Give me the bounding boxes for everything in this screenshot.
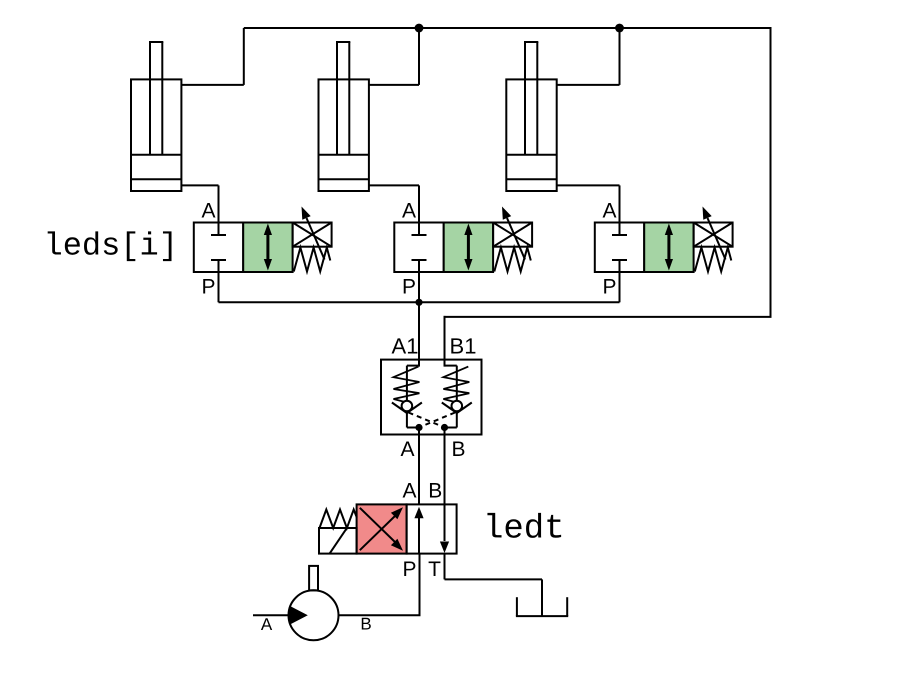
svg-text:A: A [402,480,416,503]
wire cylinder 2 bottom port [369,184,419,186]
svg-text:leds[i]: leds[i] [44,228,178,265]
directional valve P to A arrow [418,516,420,554]
pump shaft stub [309,566,318,591]
valve V1 flow arrow (double headed) [266,232,269,262]
directional valve return spring [320,510,357,529]
valve V1 blocked port P symbol [211,259,226,261]
check valve left (A side) top bracket [407,365,419,367]
directional valve straight position box [407,504,457,553]
svg-text:P: P [402,558,416,581]
check valve right (B side) top bracket [445,365,457,367]
svg-text:T: T [428,558,441,581]
svg-text:A: A [400,438,414,461]
wire cylinder 3 top port [557,84,620,86]
check valve right (B side) seat [442,403,457,414]
check block outline [381,360,482,435]
check valve left (A side) spring [394,367,420,403]
valve V3 pilot box with X [694,223,733,247]
valve V3 proportional arrow [708,218,726,260]
directional valve solenoid slash [330,528,347,553]
cylinder 2 piston rod [336,42,338,155]
cylinder 3 piston rod [524,42,526,155]
wire B1 horizontal [444,316,772,318]
wire valve3 P drop [619,272,621,302]
node check valve right (B side) port junction [441,424,448,431]
valve V2 flow arrow (double headed) [467,232,470,262]
svg-text:P: P [201,276,215,299]
svg-text:A: A [261,615,273,634]
check valve left (A side) seat [392,403,407,414]
valve V3 return spring [695,248,732,272]
wire cylinder 2 top port [369,84,419,86]
cylinder 1 body [131,79,181,191]
valve V3 blocked port A symbol [619,223,621,236]
svg-text:B: B [451,438,465,461]
wire B1 riser [444,316,446,361]
valve V1 blocked port A symbol [218,223,220,236]
svg-text:B: B [360,615,371,634]
cylinder 1 piston [131,154,181,156]
valve V2 return spring [494,248,531,272]
pilot line B to left valve (dashed) [421,413,456,427]
valve V3 flow arrow (double headed) [667,232,670,262]
node junction P bus / A1 [415,299,422,306]
valve V2 proportional arrow [507,218,525,260]
pilot line A to right valve (dashed) [409,413,444,427]
valve V3 blocked port P symbol [612,259,627,261]
valve V2 right position box (open, green) [444,223,493,273]
valve V2 blocked port P symbol [412,259,427,261]
wire right side down [770,27,772,317]
svg-text:B: B [428,480,442,503]
wire top rail [244,27,771,29]
wire B line down to valve [444,428,446,505]
svg-text:B1: B1 [450,334,477,359]
valve V1 return spring [294,248,331,272]
valve V3 left position box (blocked) [595,223,644,273]
directional valve B to T arrow [444,504,446,541]
cylinder 3 piston [506,154,556,156]
node check valve left (A side) port junction [415,424,422,431]
valve V1 pilot box with X [293,223,332,247]
svg-text:P: P [602,276,616,299]
directional valve crossed position box (red) [357,504,407,553]
wire A line down to valve [418,428,420,505]
svg-text:A1: A1 [392,334,419,359]
wire P bus horizontal [219,301,620,303]
wire cylinder 1 top port [181,84,243,86]
directional valve solenoid box [319,528,357,554]
wire cylinder 3 bottom port [557,184,620,186]
wire cylinder 1 bottom port [181,184,218,186]
valve V1 right position box (open, green) [243,223,292,273]
cylinder 2 body [319,79,369,191]
svg-text:P: P [402,276,416,299]
node junction top rail / cylinder2 riser [415,24,424,33]
valve V1 left position box (blocked) [194,223,243,273]
pump flow triangle [290,606,308,625]
wire pump inlet [253,614,289,616]
tank symbol [516,597,518,616]
valve V2 blocked port A symbol [418,223,420,236]
check valve left (A side) ball [402,401,413,412]
wire valve2 P drop [418,272,420,302]
check valve left (A side) bottom bracket [406,413,408,428]
wire A1 riser to check block [418,302,420,366]
svg-text:A: A [201,200,215,223]
cylinder 2 piston [319,154,369,156]
check valve right (B side) spring [443,367,469,403]
valve V3 right position box (open, green) [644,223,693,273]
node junction top rail / cylinder3 riser [615,24,624,33]
directional valve crossed arrows [360,516,396,551]
valve V2 left position box (blocked) [394,223,443,273]
svg-text:A: A [602,200,616,223]
wire valve P to pump outlet [419,554,421,616]
pump circle P1 [289,590,339,640]
svg-text:ledt: ledt [483,511,565,549]
cylinder 3 body [506,79,556,191]
wire valve1 P drop [218,272,220,302]
wire valve T to tank [444,554,446,580]
check valve right (B side) ball [452,401,463,412]
valve V1 proportional arrow [307,218,325,260]
check valve right (B side) bottom bracket [456,413,458,428]
svg-text:A: A [402,200,416,223]
cylinder 1 piston rod [149,42,151,155]
wire B1 stub inside block [444,360,446,367]
valve V2 pilot box with X [493,223,532,247]
